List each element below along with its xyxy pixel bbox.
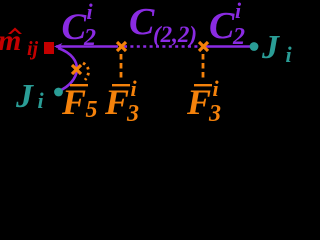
svg-text:F: F <box>186 82 211 122</box>
wire: orange dashed vertical to F_3^i right <box>202 54 205 81</box>
svg-text:3: 3 <box>126 101 139 126</box>
svg-text:2: 2 <box>83 25 96 51</box>
cross marker on main line (attachment of F_3^i right) <box>199 42 208 51</box>
wire: orange dashed vertical to F_3^i left <box>120 54 123 81</box>
wire: main horizontal edge right solid segment <box>206 45 250 48</box>
svg-text:i: i <box>235 0 242 23</box>
wire: dotted arc from cross to label F_5 <box>83 63 89 80</box>
label F_5 with overline <box>70 84 88 86</box>
wire: main horizontal edge dotted middle segment <box>124 45 200 48</box>
cross marker on curve (attachment of F_5) <box>72 65 81 74</box>
svg-text:3: 3 <box>208 101 221 126</box>
svg-text:i: i <box>38 88 45 113</box>
wire: main horizontal edge left solid segment <box>56 45 118 48</box>
svg-text:i: i <box>87 0 94 24</box>
label F_3^i left with overline <box>112 84 130 86</box>
arrowhead into node m_ij <box>54 43 63 50</box>
svg-text:F: F <box>61 82 86 122</box>
cross marker on main line (attachment of F_3^i left) <box>117 42 126 51</box>
svg-text:2: 2 <box>232 24 245 50</box>
label F_3^i right with overline <box>194 84 212 86</box>
svg-text:i: i <box>131 76 138 101</box>
svg-text:ij: ij <box>27 38 39 60</box>
svg-text:C: C <box>209 5 235 47</box>
svg-text:(2,2): (2,2) <box>153 22 197 47</box>
svg-text:J: J <box>261 29 280 66</box>
svg-text:J: J <box>15 78 34 115</box>
node J_i right dot <box>250 42 259 51</box>
svg-text:F: F <box>104 82 129 122</box>
svg-text:m: m <box>0 24 21 57</box>
node J_i bottom-left dot <box>54 88 63 97</box>
svg-text:5: 5 <box>86 97 98 123</box>
svg-text:C: C <box>129 1 155 43</box>
svg-text:i: i <box>213 76 220 101</box>
svg-text:i: i <box>286 42 293 67</box>
wire: curved edge from node J_i (bottom-left) to node m_ij <box>58 48 77 91</box>
